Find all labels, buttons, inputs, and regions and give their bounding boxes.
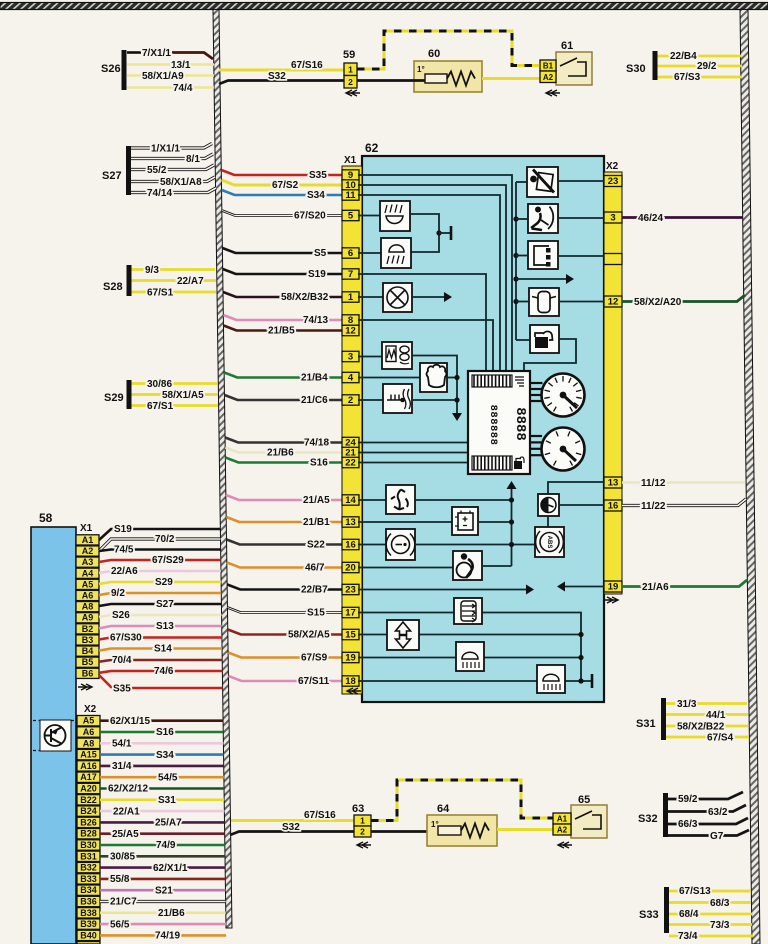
62 wire engine to junction	[447, 377, 457, 379]
svg-text:67/S1: 67/S1	[147, 401, 174, 412]
62 wire brake to ABS box	[415, 544, 535, 546]
wire 21/B4 trunk to 62.X1.4	[224, 373, 343, 378]
continuation symbol below 62.X1	[347, 688, 361, 694]
wire 67/S1 upper	[132, 291, 217, 294]
wire S22 trunk to 62.X1.16	[227, 540, 343, 545]
wire 67/S29 58.A3	[99, 560, 221, 562]
svg-text:74/9: 74/9	[156, 840, 176, 851]
wire 67/S4	[666, 736, 749, 739]
connector 59 pin 1	[344, 63, 357, 76]
62 wire pin10 to bus	[358, 185, 506, 371]
svg-text:64: 64	[437, 803, 450, 815]
svg-text:22/A6: 22/A6	[111, 566, 138, 577]
wire 22/A1 58.X2.B24	[100, 810, 224, 813]
relay 65 box	[571, 805, 607, 838]
62.X1 pin 16	[342, 539, 359, 549]
svg-text:B38: B38	[80, 908, 97, 918]
junction dot bus-charge	[513, 253, 518, 258]
62.X2 pin 13	[604, 477, 622, 488]
svg-text:A9: A9	[82, 613, 94, 623]
svg-text:S19: S19	[308, 269, 326, 280]
wire 73/4	[669, 935, 753, 938]
svg-text:8888: 8888	[512, 407, 528, 441]
wire 59/2	[668, 792, 743, 799]
display module of 62	[468, 371, 530, 474]
svg-text:74/5: 74/5	[114, 545, 134, 556]
glow indicator box	[382, 342, 412, 369]
relay 65 pin A1	[553, 813, 571, 824]
svg-text:74/4: 74/4	[173, 83, 193, 94]
wire 25/A7 58.X2.B26	[100, 821, 225, 824]
wire S35 58.B6 low	[99, 675, 223, 688]
svg-text:61: 61	[561, 40, 573, 52]
62.X1 pin 23	[342, 584, 359, 594]
svg-text:A1: A1	[82, 535, 94, 545]
wire S19 58.A1	[99, 529, 220, 540]
wire 13/1	[127, 63, 214, 65]
62 wire pin16 to brake box	[358, 544, 386, 546]
terminator pin18 line	[591, 674, 594, 688]
58.X2 pin B40	[77, 930, 100, 940]
resistor 60 fuse element	[425, 74, 447, 83]
svg-text:74/6: 74/6	[154, 666, 174, 677]
wire 22/A7	[132, 279, 217, 282]
62.X1 pin 5	[342, 210, 359, 220]
svg-text:54/1: 54/1	[112, 739, 132, 750]
wire 58/X2/A20 to border	[622, 295, 745, 302]
svg-text:70/2: 70/2	[155, 534, 175, 545]
58.X1 pin A2	[76, 546, 99, 556]
svg-text:73/4: 73/4	[678, 931, 698, 942]
62.X1 pin 11	[342, 190, 359, 200]
svg-text:1°: 1°	[417, 65, 425, 74]
svg-text:46/24: 46/24	[638, 213, 663, 224]
62.X1 pin 22	[342, 457, 359, 467]
wire 11/22 to border	[622, 499, 746, 506]
wire 46/7 trunk to 62.X1.20	[227, 563, 343, 568]
wire 21/B6 trunk to 62.X1.21	[225, 448, 343, 453]
svg-text:58/X2/B32: 58/X2/B32	[281, 292, 329, 303]
wire 67/S1 lower	[132, 404, 219, 407]
ground symbol below 65	[558, 842, 572, 848]
svg-text:S31: S31	[158, 795, 176, 806]
border frame top	[0, 3, 768, 10]
wire 22/B4	[658, 55, 742, 58]
svg-text:3: 3	[348, 352, 353, 363]
svg-text:S26: S26	[101, 63, 121, 75]
svg-text:21/C6: 21/C6	[301, 395, 328, 406]
svg-text:S32: S32	[638, 813, 658, 825]
svg-text:16: 16	[345, 540, 356, 551]
62 wire pin3 to glow box	[358, 356, 382, 358]
svg-text:2: 2	[348, 77, 353, 87]
58.X1 pin B5	[76, 657, 99, 667]
wire 74/9 58.X2.B30	[100, 844, 225, 847]
wire 67/S20 trunk to 62.X1.5	[222, 211, 343, 216]
62 wire pin19x1 fog lamp	[358, 657, 581, 659]
wire S31 58.X2.B22	[100, 798, 224, 801]
svg-text:6: 6	[348, 248, 353, 259]
svg-text:S29: S29	[155, 577, 173, 588]
58.X2 pin A5	[77, 716, 100, 726]
svg-text:67/S4: 67/S4	[707, 733, 734, 744]
continuation symbol below 62.X2.19	[604, 597, 618, 603]
svg-text:B34: B34	[80, 885, 97, 895]
62 wire charge to blank pin	[558, 255, 604, 257]
svg-text:15: 15	[345, 630, 356, 641]
wire S35 trunk to 62.X1.9	[221, 170, 343, 175]
58.X1 pin B2	[76, 624, 99, 634]
window lift box	[387, 620, 419, 650]
wire S34 58.X2.A15	[100, 753, 224, 756]
svg-text:25/A7: 25/A7	[155, 818, 182, 829]
wire S5 trunk to 62.X1.6	[222, 248, 343, 253]
wire S16 trunk to 62.X1.22	[225, 458, 343, 463]
62 wire pin7 to display	[358, 274, 486, 371]
58.X2 pin B26	[77, 817, 100, 827]
wire 67/S11 trunk to 62.X1.18	[229, 676, 343, 681]
svg-text:11/12: 11/12	[641, 478, 666, 489]
relay 61 pin B1	[540, 60, 556, 71]
svg-text:21/B1: 21/B1	[303, 517, 330, 528]
wire 67/S3	[658, 76, 743, 79]
svg-text:S15: S15	[307, 608, 325, 619]
58.X1 pin B6	[76, 668, 99, 678]
wire 74/14	[131, 188, 216, 193]
svg-text:13: 13	[608, 478, 619, 489]
svg-text:G7: G7	[710, 831, 724, 842]
svg-text:1/X1/1: 1/X1/1	[151, 144, 180, 155]
connector 63 pin 1	[354, 815, 371, 826]
wire 58/X1/A9	[127, 74, 214, 76]
62.X1 pin 18	[342, 676, 359, 686]
transistor symbol in 58	[40, 720, 71, 751]
wire S13 58.B2	[99, 626, 222, 628]
wire 59.2 to 60	[357, 79, 425, 82]
svg-text:2: 2	[348, 395, 353, 406]
62 wire seatbelt to pin23	[558, 180, 604, 182]
svg-text:54/5: 54/5	[158, 772, 178, 783]
svg-text:X1: X1	[344, 155, 357, 166]
svg-text:7/X1/1: 7/X1/1	[142, 48, 171, 59]
splice S31	[661, 698, 666, 740]
wire 60 to 61.A2	[482, 77, 541, 80]
splice S28	[127, 265, 132, 296]
62 wire airbag to pin3	[558, 217, 604, 219]
svg-text:55/2: 55/2	[147, 165, 167, 176]
display to speedometer ribbon	[530, 382, 543, 384]
wire 21/B5 trunk to 62.X1.12	[224, 326, 343, 331]
wire 44/1	[666, 713, 748, 716]
svg-text:21/A5: 21/A5	[303, 495, 330, 506]
58.X1 pin A9	[76, 613, 99, 623]
svg-text:B30: B30	[80, 840, 97, 850]
svg-text:60: 60	[428, 48, 440, 60]
wire 58/X1/A5	[132, 393, 219, 396]
58.X2 pin A15	[77, 749, 100, 759]
svg-text:29/2: 29/2	[697, 61, 717, 72]
58.X1 pin A5	[76, 579, 99, 589]
brake warning box	[386, 529, 415, 560]
58.X2 pin B34	[77, 885, 100, 895]
engine indicator box	[420, 363, 447, 392]
svg-text:21/A6: 21/A6	[642, 582, 669, 593]
splice S32 right	[663, 793, 668, 837]
svg-text:30/85: 30/85	[110, 852, 135, 863]
wire 55/2	[131, 165, 214, 170]
resistor 60 zigzag	[447, 72, 475, 86]
svg-text:67/S20: 67/S20	[294, 211, 326, 222]
svg-text:21/B6: 21/B6	[267, 448, 294, 459]
svg-text:3: 3	[610, 213, 615, 224]
wire S29 58.A5	[99, 582, 221, 584]
svg-text:18: 18	[345, 676, 356, 687]
svg-text:S35: S35	[309, 170, 327, 181]
resistor 64 box	[427, 815, 497, 846]
wire 46/24 62.X2.3 to border	[622, 216, 743, 219]
58.X2 pin B28	[77, 829, 100, 839]
wire 64 to 65.A2	[497, 828, 553, 831]
svg-text:22/A7: 22/A7	[177, 276, 204, 287]
62 wire pin18 headlamp	[358, 680, 592, 682]
58.X2 pin B24	[77, 806, 100, 816]
svg-text:67/S30: 67/S30	[110, 633, 142, 644]
svg-text:21/B4: 21/B4	[301, 373, 328, 384]
clock box	[538, 494, 559, 516]
svg-text:S27: S27	[102, 170, 122, 182]
wire 55/8 58.X2.B33	[100, 878, 225, 881]
svg-text:888888: 888888	[487, 405, 499, 446]
svg-text:A15: A15	[80, 750, 97, 760]
62 wire door to pin12	[559, 301, 604, 303]
62.X1 pin 24	[342, 437, 359, 447]
62 connector X1 strip	[342, 166, 362, 694]
seatbelt warning box	[527, 167, 558, 197]
rear fog lamp box	[456, 642, 484, 671]
svg-text:21/B5: 21/B5	[268, 326, 295, 337]
svg-text:7: 7	[348, 269, 353, 280]
tachometer gauge	[542, 428, 585, 471]
62 wire pin1 to lamp	[358, 296, 383, 298]
svg-text:8: 8	[348, 315, 353, 326]
58.X1 pin A3	[76, 557, 99, 567]
svg-text:59/2: 59/2	[678, 794, 698, 805]
svg-text:58/X1/A8: 58/X1/A8	[160, 177, 202, 188]
svg-text:B36: B36	[80, 897, 97, 907]
svg-text:59: 59	[343, 49, 355, 61]
resistor 60 box	[414, 61, 482, 92]
svg-text:58/X1/A9: 58/X1/A9	[142, 71, 184, 82]
svg-text:74/13: 74/13	[303, 315, 328, 326]
wire S32 trunk to 59	[219, 81, 344, 85]
airbag warning box	[528, 204, 558, 233]
wire 31/4 58.X2.A16	[100, 765, 224, 768]
62.X1 pin 20	[342, 562, 359, 572]
svg-text:13/1: 13/1	[171, 60, 191, 71]
svg-text:67/S16: 67/S16	[304, 810, 336, 821]
62.X1 pin 17	[342, 607, 359, 617]
svg-text:70/4: 70/4	[112, 655, 132, 666]
58.X2 pin B32	[77, 862, 100, 872]
svg-text:9/2: 9/2	[111, 588, 125, 599]
svg-text:1: 1	[360, 816, 365, 826]
58.X2 pin B36	[77, 896, 100, 906]
svg-text:17: 17	[345, 608, 356, 619]
svg-text:A17: A17	[80, 772, 97, 782]
wire 30/85 58.X2.B31	[100, 855, 225, 858]
svg-text:22/B7: 22/B7	[301, 585, 328, 596]
svg-text:A3: A3	[82, 557, 94, 567]
svg-text:67/S11: 67/S11	[298, 676, 330, 687]
wire 21/B1 trunk to 62.X1.13	[226, 517, 343, 522]
svg-text:62/X2/12: 62/X2/12	[108, 784, 148, 795]
wire 21/A6 to border	[622, 580, 747, 587]
svg-text:S16: S16	[156, 727, 174, 738]
58.X1 pin A8	[76, 602, 99, 612]
62.X1 pin 6	[342, 248, 359, 258]
svg-text:74/19: 74/19	[155, 931, 180, 942]
wire 67/S2 trunk to 62.X1.10	[221, 180, 343, 185]
wire 70/2 58.A2	[99, 539, 221, 551]
62.X1 pin 12	[342, 325, 359, 335]
svg-text:1: 1	[348, 64, 353, 74]
svg-text:S14: S14	[154, 644, 172, 655]
resistor 64 zigzag	[461, 824, 489, 838]
svg-text:11: 11	[345, 190, 356, 201]
62.X1 pin 1	[342, 292, 359, 302]
wire 70/4 58.B5	[99, 660, 222, 662]
62.X1 pin 10	[342, 180, 359, 190]
svg-text:S30: S30	[626, 63, 646, 75]
wire 67/S9 trunk to 62.X1.19	[228, 653, 343, 658]
wire 21/C7 58.X2.B36	[100, 900, 226, 903]
svg-text:S5: S5	[314, 248, 327, 259]
svg-text:B40: B40	[80, 930, 97, 940]
58.X2 pin B38	[77, 908, 100, 918]
svg-text:X1: X1	[80, 523, 93, 534]
svg-text:67/S13: 67/S13	[679, 886, 711, 897]
svg-text:62: 62	[365, 141, 379, 155]
fog-rear indicator box	[380, 201, 410, 231]
svg-text:A8: A8	[83, 738, 95, 748]
62 wire coolant to junction	[412, 399, 457, 401]
62.X2 pin 19	[604, 581, 622, 592]
svg-text:67/S29: 67/S29	[152, 555, 184, 566]
svg-text:67/S9: 67/S9	[301, 653, 328, 664]
62.X1 pin 4	[342, 372, 359, 382]
62 wire pin9 to bus	[358, 175, 512, 371]
coolant indicator box	[383, 384, 412, 413]
svg-text:S29: S29	[104, 392, 124, 404]
svg-text:58/X2/A5: 58/X2/A5	[288, 630, 330, 641]
62 wire glow to down-arrow	[412, 356, 457, 417]
wire S32 trunk to 63	[230, 832, 354, 836]
battery warning box	[452, 507, 478, 535]
svg-text:16: 16	[608, 501, 619, 512]
wire 66/3	[668, 818, 748, 824]
splice S30	[653, 51, 658, 80]
svg-text:A5: A5	[83, 716, 95, 726]
58.X2 pin A17	[77, 772, 100, 782]
62 wire pin17 defrost	[358, 613, 581, 682]
svg-text:8/1: 8/1	[186, 154, 200, 165]
62 arrow to right	[516, 278, 569, 280]
wire S34 trunk to 62.X1.11	[222, 190, 343, 195]
svg-text:X2: X2	[84, 704, 97, 715]
lamp indicator box	[383, 283, 412, 312]
svg-text:58/X2/B22: 58/X2/B22	[677, 722, 725, 733]
wire 62/X1/15 58.X2.A5	[100, 719, 223, 722]
svg-text:55/8: 55/8	[110, 874, 130, 885]
wire 67/S30 58.B3	[99, 638, 222, 640]
svg-text:S19: S19	[114, 524, 132, 535]
svg-text:67/S1: 67/S1	[147, 288, 174, 299]
62 wire pin13 to battery box	[358, 521, 452, 523]
svg-text:67/S3: 67/S3	[674, 72, 701, 83]
wire 74/6 58.B6	[99, 671, 222, 673]
62.X1 pin 15	[342, 629, 359, 639]
62 wire battery to trunk	[478, 521, 512, 523]
svg-text:68/3: 68/3	[710, 898, 730, 909]
display to tachometer ribbon	[530, 435, 542, 437]
62.X1 pin 13	[342, 517, 359, 527]
wire 63/2	[668, 805, 746, 812]
wire 58/X2/A5 trunk to 62.X1.15	[228, 630, 343, 635]
62 wire pin23 arrow	[358, 589, 529, 591]
svg-text:A6: A6	[82, 591, 94, 601]
62 wire fog-rear to junction	[410, 214, 439, 252]
splice S33	[664, 887, 669, 933]
62 trunk with up-arrow	[511, 486, 513, 566]
svg-text:74/18: 74/18	[304, 438, 329, 449]
62 wire bus to seatbelt	[516, 181, 527, 183]
62 wire pin20 to airbag2 box	[358, 567, 453, 569]
display top-right icon	[515, 377, 524, 386]
62 wire bus to fuel	[516, 339, 530, 341]
wire 56/5 58.X2.B39	[100, 923, 226, 926]
wire 21/C6 trunk to 62.X1.2	[225, 395, 343, 400]
wire 29/2	[658, 65, 743, 68]
58.X1 pin B3	[76, 635, 99, 645]
62 wire oil to trunk	[415, 499, 512, 501]
svg-text:S21: S21	[155, 885, 173, 896]
svg-text:S16: S16	[310, 458, 328, 469]
wire 11/12 to border	[622, 481, 745, 483]
62 wire fuel to display	[524, 339, 576, 371]
wire 74/4	[127, 86, 214, 88]
ground symbol below 61	[546, 90, 560, 96]
display bottom bar	[472, 456, 512, 470]
58.X1 pin A4	[76, 568, 99, 578]
58.X1 pin B4	[76, 646, 99, 656]
svg-text:B26: B26	[80, 817, 97, 827]
headlamp box	[537, 665, 565, 693]
wire 58/X1/A8	[131, 177, 215, 182]
svg-text:S31: S31	[636, 718, 656, 730]
62.X1 pin 3	[342, 351, 359, 361]
svg-text:S35: S35	[113, 684, 131, 695]
resistor 64 fuse element	[438, 826, 461, 835]
wire 68/3	[669, 901, 751, 904]
svg-text:63: 63	[352, 803, 364, 815]
wire 58/X2/B32 trunk to 62.X1.1	[223, 292, 343, 297]
wire 67/S13	[669, 890, 751, 893]
62.X1 pin 14	[342, 495, 359, 505]
wire S14 58.B4	[99, 649, 222, 651]
svg-text:S28: S28	[103, 281, 123, 293]
62 wire pin6 to fog-front lamp	[358, 252, 381, 254]
svg-text:S33: S33	[639, 909, 659, 921]
